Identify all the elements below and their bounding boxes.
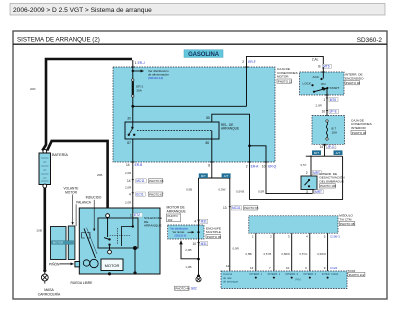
svg-text:PIÑÓN: PIÑÓN <box>49 261 60 266</box>
svg-text:MT6: MT6 <box>330 98 337 102</box>
svg-text:PALANCA: PALANCA <box>76 200 92 204</box>
svg-text:PHOTO 65: PHOTO 65 <box>244 206 259 210</box>
svg-text:ER-Q: ER-Q <box>268 164 276 168</box>
svg-text:ER-J: ER-J <box>138 61 145 65</box>
svg-text:GASOLINA: GASOLINA <box>188 52 220 58</box>
svg-text:0,5Y: 0,5Y <box>301 163 307 167</box>
svg-text:13: 13 <box>250 266 254 270</box>
svg-text:10: 10 <box>262 164 266 168</box>
svg-text:Ver distribución: Ver distribución <box>170 226 188 230</box>
svg-text:T/A CTM: T/A CTM <box>339 217 352 221</box>
svg-text:PHOTO 65: PHOTO 65 <box>149 179 164 183</box>
svg-text:INTERIOR: INTERIOR <box>351 126 367 130</box>
svg-text:START: START <box>330 86 340 90</box>
svg-text:ACC: ACC <box>313 75 320 79</box>
svg-text:INTERR. 4: INTERR. 4 <box>304 272 317 276</box>
svg-text:2,AL: 2,AL <box>312 57 319 61</box>
svg-text:2,0R: 2,0R <box>125 200 132 204</box>
svg-text:0,5YB: 0,5YB <box>264 252 272 256</box>
svg-text:4: 4 <box>194 220 196 224</box>
svg-text:20B: 20B <box>97 173 102 177</box>
svg-text:INDUCIDO: INDUCIDO <box>86 196 102 200</box>
svg-text:INTERR. 2: INTERR. 2 <box>268 272 281 276</box>
svg-text:13: 13 <box>223 206 227 210</box>
svg-text:0,5YG: 0,5YG <box>300 252 308 256</box>
svg-text:MOTOR: MOTOR <box>105 263 120 268</box>
svg-text:A/T: A/T <box>336 151 341 155</box>
svg-text:RUEDA LIBRE: RUEDA LIBRE <box>71 281 94 285</box>
svg-text:CARROCERÍA: CARROCERÍA <box>38 293 61 297</box>
svg-text:30: 30 <box>127 116 131 120</box>
svg-text:PHOTO 46: PHOTO 46 <box>175 287 190 291</box>
svg-text:2: 2 <box>306 171 308 175</box>
svg-text:20B: 20B <box>37 229 42 233</box>
svg-text:0,5Br: 0,5Br <box>246 252 253 256</box>
svg-text:14: 14 <box>320 145 324 149</box>
svg-text:Ver tierras: Ver tierras <box>173 230 186 234</box>
svg-text:85: 85 <box>206 116 210 120</box>
svg-text:2,0R: 2,0R <box>316 104 323 108</box>
svg-text:PHOTO 49: PHOTO 49 <box>207 235 222 239</box>
svg-text:PHOTO 38: PHOTO 38 <box>340 222 355 226</box>
svg-text:JP-E: JP-E <box>330 110 337 114</box>
svg-text:MASA: MASA <box>44 288 54 292</box>
svg-text:2006-2009 > D 2.5 VGT > Sistem: 2006-2009 > D 2.5 VGT > Sistema de arran… <box>13 7 152 14</box>
svg-text:PHOTO 12: PHOTO 12 <box>278 79 293 83</box>
svg-text:ER-F: ER-F <box>248 60 255 64</box>
svg-text:ARRANQUE: ARRANQUE <box>144 224 162 228</box>
svg-text:A/T: A/T <box>224 174 229 178</box>
svg-text:M31: M31 <box>201 220 207 224</box>
svg-text:PHOTO 92: PHOTO 92 <box>346 81 361 85</box>
svg-text:PHOTO 112: PHOTO 112 <box>349 273 365 277</box>
svg-text:30A: 30A <box>136 89 142 93</box>
svg-text:C122: C122 <box>330 266 338 270</box>
svg-text:10A: 10A <box>332 131 338 135</box>
svg-text:2: 2 <box>242 60 244 64</box>
svg-text:12: 12 <box>226 264 230 268</box>
svg-text:1: 1 <box>130 213 132 217</box>
svg-text:B: B <box>318 65 320 69</box>
svg-text:MOTOR: MOTOR <box>65 190 78 194</box>
svg-text:PHOTO 106: PHOTO 106 <box>320 184 336 188</box>
svg-text:2,0B: 2,0B <box>185 248 191 252</box>
svg-text:PHOTO 67: PHOTO 67 <box>149 192 164 196</box>
svg-text:102: 102 <box>168 218 173 222</box>
svg-text:10: 10 <box>193 242 197 246</box>
svg-text:SISTEMA DE ARRANQUE (2): SISTEMA DE ARRANQUE (2) <box>17 37 100 44</box>
svg-text:2,0R: 2,0R <box>125 171 132 175</box>
svg-text:1: 1 <box>135 61 137 65</box>
svg-text:0,5RW: 0,5RW <box>281 252 290 256</box>
svg-text:ER-B: ER-B <box>135 163 143 167</box>
svg-text:1: 1 <box>324 98 326 102</box>
svg-text:20R: 20R <box>30 87 36 91</box>
svg-text:G62: G62 <box>191 287 197 291</box>
svg-text:(SD110-12): (SD110-12) <box>148 76 163 80</box>
svg-text:ET2: ET2 <box>134 213 140 217</box>
svg-text:(SD110-6): (SD110-6) <box>175 234 187 238</box>
svg-text:2: 2 <box>246 164 248 168</box>
svg-text:2,0R: 2,0R <box>125 186 132 190</box>
svg-text:MT6: MT6 <box>323 65 330 69</box>
svg-text:SD360-2: SD360-2 <box>357 37 383 44</box>
svg-text:ARRANQUE: ARRANQUE <box>167 210 187 214</box>
svg-text:BATERÍA: BATERÍA <box>52 153 68 157</box>
svg-text:10: 10 <box>286 266 290 270</box>
svg-text:DEL EMBRAGUE: DEL EMBRAGUE <box>320 179 344 183</box>
svg-text:8: 8 <box>208 163 210 167</box>
svg-text:14: 14 <box>126 163 130 167</box>
svg-text:0,9R: 0,9R <box>233 247 240 251</box>
svg-text:ECI1: ECI1 <box>136 192 143 196</box>
svg-text:INTER. CADA: INTER. CADA <box>322 272 339 276</box>
svg-text:1,0B: 1,0B <box>185 265 191 269</box>
svg-text:M31: M31 <box>201 242 207 246</box>
svg-text:0,5R: 0,5R <box>258 189 265 193</box>
svg-text:MOTOR: MOTOR <box>277 75 289 79</box>
svg-text:10: 10 <box>322 110 326 114</box>
svg-text:MULTIPLE: MULTIPLE <box>206 230 221 234</box>
svg-text:INTERR. 1: INTERR. 1 <box>250 272 263 276</box>
svg-text:4: 4 <box>129 192 131 196</box>
svg-text:MRT: MRT <box>315 190 322 194</box>
svg-text:M/T: M/T <box>201 174 206 178</box>
svg-text:LOCK: LOCK <box>303 81 312 85</box>
svg-text:14: 14 <box>127 179 131 183</box>
svg-text:ER-A: ER-A <box>251 164 259 168</box>
svg-text:0,5WO: 0,5WO <box>317 252 327 256</box>
svg-text:MC31: MC31 <box>232 206 241 210</box>
svg-text:MC11: MC11 <box>136 179 144 183</box>
svg-text:ARRANQUE: ARRANQUE <box>221 127 239 131</box>
svg-text:de arranque: de arranque <box>223 279 239 283</box>
svg-text:INTERR. 3: INTERR. 3 <box>285 272 298 276</box>
svg-text:ON: ON <box>321 82 326 86</box>
svg-text:M/T: M/T <box>314 151 319 155</box>
svg-text:0,5W: 0,5W <box>219 188 226 192</box>
svg-text:P/N: P/N <box>295 277 300 281</box>
svg-text:C106-3: C106-3 <box>330 235 340 239</box>
svg-text:PHOTO 46: PHOTO 46 <box>352 131 367 135</box>
svg-text:JP-G: JP-G <box>327 145 335 149</box>
svg-text:0,5VB: 0,5VB <box>236 189 244 193</box>
svg-text:ENCENDIDO: ENCENDIDO <box>345 76 364 80</box>
svg-text:87: 87 <box>127 141 131 145</box>
svg-text:0,5B: 0,5B <box>186 188 192 192</box>
svg-text:86: 86 <box>206 141 210 145</box>
svg-text:MOTOR: MOTOR <box>53 241 63 245</box>
